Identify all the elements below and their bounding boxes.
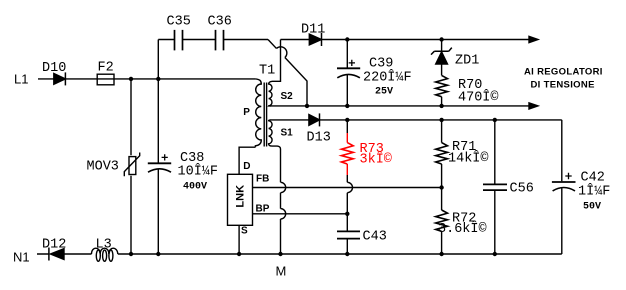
node dot rail C C56 <box>493 118 497 122</box>
transformer secondary S2 <box>269 40 281 106</box>
wire R73 lower with hop over FB line <box>347 175 352 231</box>
node dot ground R72 <box>439 252 443 256</box>
svg-text:F2: F2 <box>98 61 114 76</box>
wire C43 to ground <box>346 239 348 254</box>
svg-text:C35: C35 <box>167 15 191 30</box>
wire MOV3 vertical <box>130 79 132 254</box>
node dot ground C38 <box>156 252 160 256</box>
svg-text:D13: D13 <box>307 131 331 146</box>
capacitor C42 electrolytic <box>552 181 576 183</box>
svg-text:25V: 25V <box>375 87 393 98</box>
svg-text:C43: C43 <box>363 230 387 245</box>
node dot rail B S2 <box>305 104 309 108</box>
resistor R73 red zigzag <box>341 143 353 164</box>
svg-text:DI TENSIONE: DI TENSIONE <box>531 80 595 91</box>
arrow rail A output <box>529 36 538 42</box>
node dot ground C43 <box>345 252 349 256</box>
svg-text:ZD1: ZD1 <box>455 54 479 69</box>
wire BP line <box>253 213 348 215</box>
wire R71 R72 branch <box>441 120 443 254</box>
node dot ground C56 <box>493 252 497 256</box>
transformer T1 primary winding P <box>255 79 261 147</box>
chip LNK body <box>228 174 253 225</box>
wire C56 branch <box>494 120 496 254</box>
hop over S2 vertical <box>276 47 286 58</box>
svg-text:N1: N1 <box>13 250 30 265</box>
svg-text:1Î¼F: 1Î¼F <box>578 184 610 200</box>
wire R73 branch black top <box>346 120 348 133</box>
svg-text:FB: FB <box>256 173 269 184</box>
inductor L3 <box>92 248 101 254</box>
svg-text:T1: T1 <box>259 64 275 79</box>
svg-text:400V: 400V <box>183 182 207 193</box>
svg-text:AI REGOLATORI: AI REGOLATORI <box>524 67 603 78</box>
diode D13 <box>319 113 321 126</box>
capacitor C38 electrolytic <box>148 162 171 164</box>
wire C39 branch <box>346 40 348 106</box>
diode D11 <box>321 33 323 46</box>
svg-text:D10: D10 <box>42 61 66 76</box>
fuse F2 <box>97 74 114 85</box>
svg-text:D11: D11 <box>301 23 325 38</box>
svg-text:M: M <box>276 264 287 279</box>
wire LNK D pin <box>239 147 255 174</box>
svg-text:C42: C42 <box>581 171 605 186</box>
node dot ground MOV3 <box>129 252 133 256</box>
wire rail B <box>269 105 530 107</box>
zener ZD1 <box>431 48 452 55</box>
node dot rail C R71 <box>439 118 443 122</box>
wire ZD1 R70 branch <box>441 40 443 106</box>
svg-text:C39: C39 <box>369 57 393 72</box>
diode D12 <box>48 248 50 261</box>
svg-text:3.6kÎ©: 3.6kÎ© <box>438 221 487 237</box>
svg-text:S1: S1 <box>281 128 294 139</box>
varistor MOV3 <box>129 157 136 175</box>
node dot ground LNK S <box>237 252 241 256</box>
svg-text:50V: 50V <box>583 202 601 213</box>
svg-text:14kÎ©: 14kÎ© <box>448 151 489 167</box>
wire top rail A left (C35/C36 branch) <box>158 39 268 41</box>
svg-text:BP: BP <box>256 203 270 214</box>
svg-text:10Î¼F: 10Î¼F <box>178 164 219 180</box>
capacitor C39 electrolytic <box>337 67 360 69</box>
wire R73 red segments <box>346 133 348 175</box>
wire rail A right <box>281 39 530 41</box>
svg-text:S2: S2 <box>281 91 294 102</box>
node dot rail C R73 <box>345 118 349 122</box>
capacitor C56 <box>483 184 507 190</box>
node dot main bus x131 <box>129 77 133 81</box>
wire FB line <box>253 187 442 189</box>
node dot rail A ZD1 <box>439 37 443 41</box>
svg-text:C56: C56 <box>510 182 534 197</box>
wire rail C <box>271 119 562 121</box>
svg-text:L3: L3 <box>96 238 112 253</box>
wire LNK S pin <box>238 225 240 254</box>
svg-text:D12: D12 <box>42 238 66 253</box>
wire C42 right branch <box>561 120 563 254</box>
resistor R71 <box>436 143 448 164</box>
capacitor C43 <box>337 231 360 238</box>
wire L1 main bus <box>38 78 255 80</box>
svg-text:470Î©: 470Î© <box>458 90 499 106</box>
node dot rail B R70 <box>439 104 443 108</box>
svg-text:D: D <box>243 161 250 172</box>
svg-text:220Î¼F: 220Î¼F <box>363 70 412 86</box>
wire bottom rail M <box>37 253 562 255</box>
svg-text:LNK: LNK <box>234 185 246 208</box>
svg-text:P: P <box>243 107 250 118</box>
svg-text:C36: C36 <box>208 15 232 30</box>
capacitor C36 <box>216 30 224 51</box>
resistor R72 <box>436 210 448 231</box>
node dot rail B C39 <box>345 104 349 108</box>
wire S1 return to ground with hops over FB and BP <box>281 149 286 254</box>
svg-text:L1: L1 <box>14 72 28 87</box>
transformer core <box>264 83 266 147</box>
resistor R70 <box>436 75 448 96</box>
node dot rail A C39 <box>345 37 349 41</box>
svg-text:S: S <box>241 226 248 237</box>
transformer secondary S1 <box>269 120 281 149</box>
svg-text:MOV3: MOV3 <box>87 159 119 174</box>
svg-text:3kÎ©: 3kÎ© <box>360 152 392 168</box>
node dot ground S1 return <box>278 252 282 256</box>
diode D10 <box>64 72 66 85</box>
capacitor C35 <box>175 30 183 51</box>
node dot FB divider junction <box>439 185 443 189</box>
arrow rail B output <box>529 103 538 109</box>
node dot BP junction <box>345 212 349 216</box>
wire C38 vertical <box>157 40 159 255</box>
node dot main bus x158 <box>156 77 160 81</box>
wire diagonal C36 to S2-bottom node with hop <box>268 40 307 106</box>
